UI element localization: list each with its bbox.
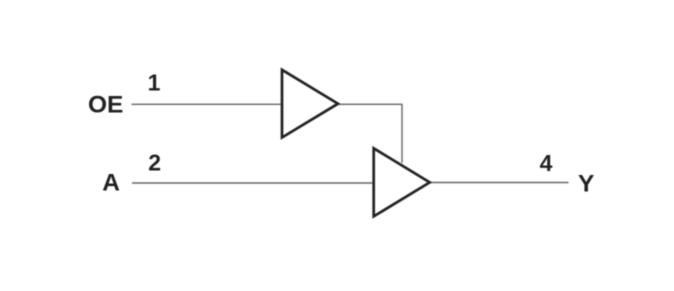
svg-text:A: A <box>102 170 120 197</box>
svg-text:OE: OE <box>88 92 123 119</box>
svg-text:1: 1 <box>148 70 161 96</box>
svg-text:2: 2 <box>148 150 161 176</box>
svg-text:4: 4 <box>540 150 553 176</box>
svg-text:Y: Y <box>578 170 594 197</box>
